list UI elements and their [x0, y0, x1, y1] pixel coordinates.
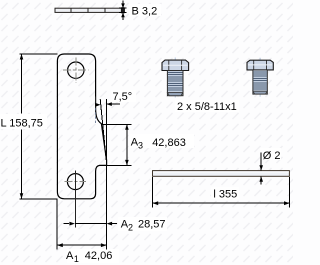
svg-text:A: A — [66, 250, 74, 262]
svg-text:1: 1 — [74, 254, 79, 264]
svg-text:Ø 2: Ø 2 — [263, 150, 281, 162]
svg-text:B 3,2: B 3,2 — [132, 5, 158, 17]
svg-text:2: 2 — [128, 223, 133, 233]
svg-text:42,863: 42,863 — [152, 137, 186, 149]
svg-text:42,06: 42,06 — [85, 250, 113, 262]
svg-text:l 355: l 355 — [213, 189, 237, 201]
svg-text:L 158,75: L 158,75 — [1, 117, 43, 129]
svg-text:3: 3 — [138, 140, 143, 150]
svg-text:28,57: 28,57 — [138, 219, 166, 231]
svg-text:2 x 5/8-11x1: 2 x 5/8-11x1 — [177, 101, 237, 113]
svg-text:7,5°: 7,5° — [113, 91, 133, 103]
